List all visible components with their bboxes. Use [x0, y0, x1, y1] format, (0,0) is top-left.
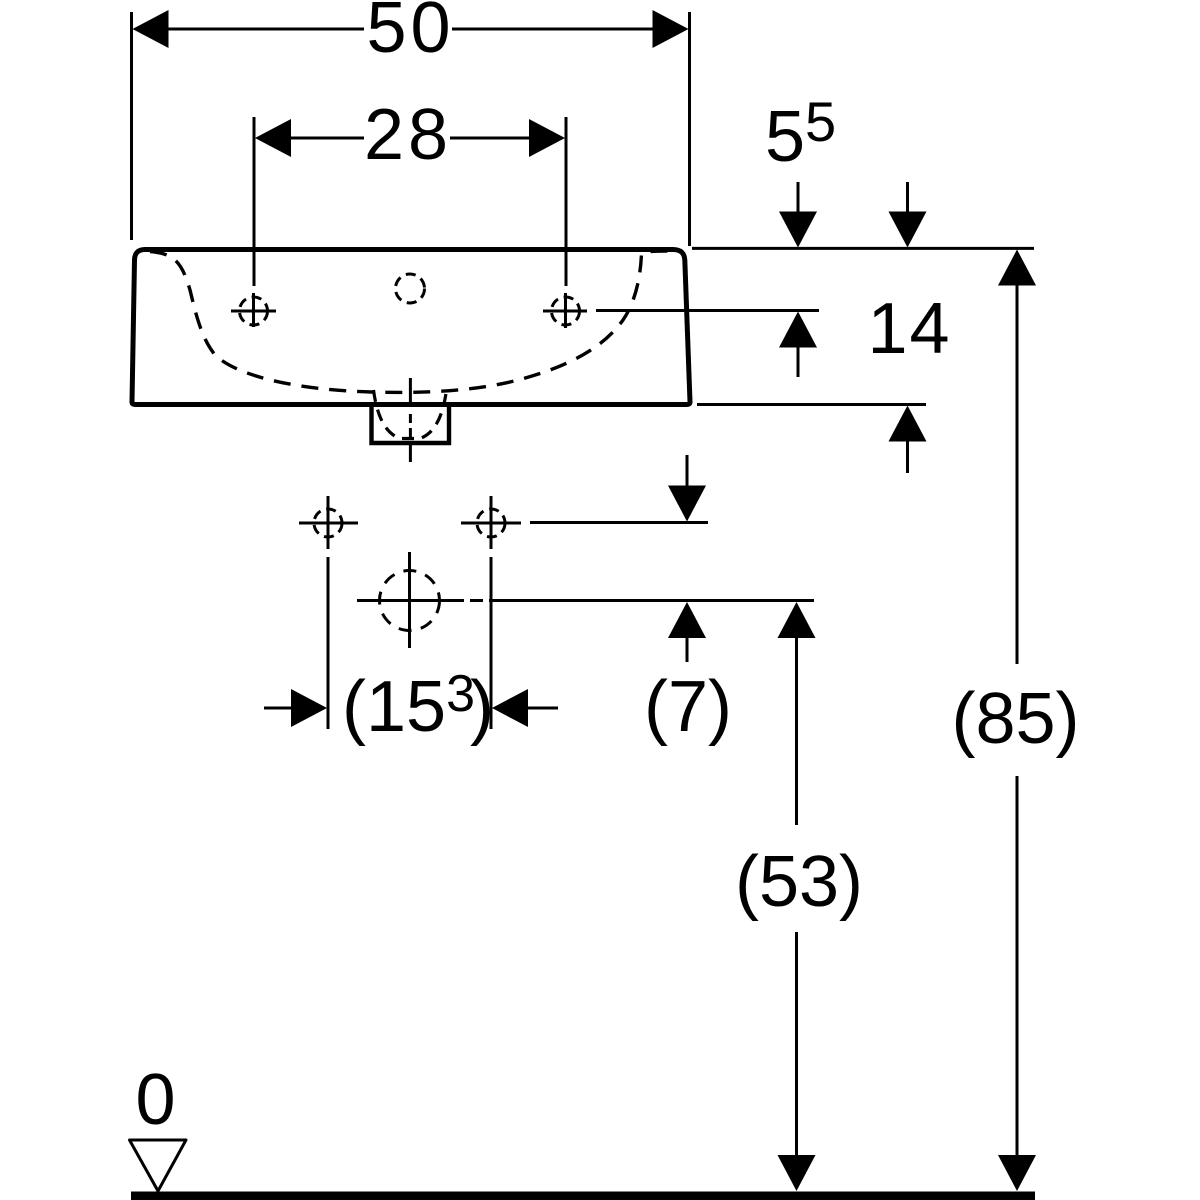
dimension 7 down arrowhead	[668, 486, 706, 522]
dimension 15.3 left arrow stem	[264, 707, 294, 710]
dimension 53 line upper	[795, 636, 798, 825]
dimension 28 line right segment	[450, 137, 531, 140]
siphon centerline dash 1	[409, 414, 412, 423]
dimension 5.5 up arrowhead	[779, 312, 817, 348]
dimension 14 down arrow stem	[906, 182, 909, 214]
dimension 50 arrowhead right	[653, 10, 689, 48]
dimension 50 arrowhead left	[133, 10, 169, 48]
svg-text:(53): (53)	[735, 842, 863, 922]
svg-text:0: 0	[135, 1060, 175, 1140]
drain level reference line	[489, 599, 814, 602]
top edge reference line right	[692, 247, 1034, 250]
dimension 53 top arrowhead	[778, 602, 816, 638]
dimension 14 up arrowhead	[889, 406, 927, 442]
datum level triangle	[130, 1140, 187, 1191]
right fixing hole cross vertical	[490, 496, 493, 549]
dimension 14 up arrow stem	[906, 440, 909, 473]
right fixing hole extension line down	[490, 557, 493, 729]
siphon centerline upper	[409, 378, 412, 406]
dimension 50 extension line left	[130, 12, 133, 240]
overflow hole dashed circle	[396, 274, 425, 303]
drain outlet centerline horizontal left	[357, 599, 464, 602]
washbasin body outline	[132, 250, 690, 405]
dimension 28 arrowhead left	[255, 119, 291, 157]
dimension 85 top arrowhead	[998, 250, 1036, 286]
dimension 7 up arrow stem	[686, 636, 689, 662]
left fixing hole cross horizontal	[299, 522, 358, 525]
svg-text:14: 14	[868, 289, 950, 369]
tap hole level reference line	[596, 309, 819, 312]
dimension 50 extension line right	[688, 12, 691, 246]
left tap hole cross vertical	[252, 293, 255, 327]
dimension 7 down arrow stem	[686, 455, 689, 487]
svg-text:(153): (153)	[342, 665, 494, 747]
dimension 7 up arrowhead	[668, 602, 706, 638]
dimension 28 extension line left	[253, 117, 256, 286]
right tap hole dashed circle	[552, 297, 580, 325]
dimension 5.5 up arrow stem	[797, 346, 800, 377]
dimension 50 line left segment	[166, 28, 364, 31]
right fixing hole cross horizontal	[461, 522, 521, 525]
svg-text:(7): (7)	[644, 667, 732, 747]
dimension 85 line upper	[1016, 284, 1019, 664]
fixing hole level leader line	[530, 521, 708, 524]
dimension 53 line lower	[795, 932, 798, 1157]
bottom edge reference line right	[697, 403, 926, 406]
left tap hole dashed circle	[240, 297, 268, 325]
dimension 5.5 down arrow stem	[797, 182, 800, 214]
dimension 50 line right segment	[452, 28, 654, 31]
drain outlet centerline vertical	[408, 552, 411, 648]
svg-text:(85): (85)	[951, 679, 1079, 759]
siphon centerline lower	[409, 444, 412, 462]
dimension 85 bottom arrowhead	[998, 1155, 1036, 1191]
dimension 14 down arrowhead	[889, 212, 927, 248]
dimension 28 arrowhead right	[529, 119, 565, 157]
dimension 28 extension line right	[565, 117, 568, 286]
dimension 15.3 right arrowhead	[492, 689, 528, 727]
drain outlet centerline horizontal dash	[470, 599, 483, 602]
right tap hole cross vertical	[564, 293, 567, 328]
drain outlet dashed circle	[380, 571, 440, 631]
dimension 15.3 right arrow stem	[526, 707, 558, 710]
dimension 85 line lower	[1016, 776, 1019, 1157]
left tap hole cross horizontal	[231, 310, 276, 313]
floor ground line	[131, 1192, 1035, 1200]
dimension 53 bottom arrowhead	[778, 1155, 816, 1191]
left fixing hole extension line down	[327, 557, 330, 729]
left fixing hole dashed circle	[314, 509, 342, 537]
basin inner rim dashed outline	[150, 251, 670, 392]
right fixing hole dashed circle	[477, 509, 505, 537]
dimension 28 line left segment	[289, 137, 364, 140]
dimension 5.5 down arrowhead	[779, 212, 817, 248]
left fixing hole cross vertical	[327, 496, 330, 549]
siphon centerline dash 2	[409, 428, 412, 437]
right tap hole cross horizontal	[543, 310, 587, 313]
siphon dashed U outline	[374, 390, 447, 439]
siphon housing rectangle	[372, 405, 450, 443]
dimension 15.3 left arrowhead	[291, 689, 327, 727]
